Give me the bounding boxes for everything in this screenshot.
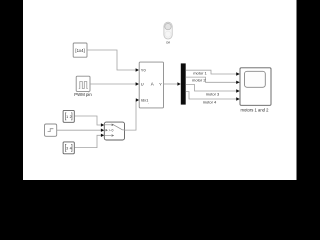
- constant C3 [3 4]: [63, 142, 74, 154]
- block PWM pin: [74, 76, 92, 97]
- white canvas: [23, 0, 297, 180]
- svg-text:1: 1: [66, 115, 68, 119]
- wire C2 to switch in1: [75, 116, 102, 125]
- svg-text:2: 2: [70, 115, 72, 119]
- wire U1.Y to demux: [164, 83, 179, 85]
- svg-text:motors 1 and 2: motors 1 and 2: [241, 107, 270, 112]
- switch block: [104, 122, 124, 140]
- svg-text:U: U: [141, 82, 144, 87]
- demux D1: [181, 63, 186, 104]
- constant C1 [1x4]: [73, 43, 87, 57]
- wire demux.3 to scope.3, label motor 3: [186, 85, 237, 92]
- svg-text:motor 2: motor 2: [192, 77, 206, 82]
- wire C1 to U1.Y0: [87, 50, 136, 70]
- svg-text:4: 4: [70, 147, 72, 151]
- wire demux.1 to scope.1, label motor 1: [186, 70, 237, 74]
- wire PWM pin to U1.U: [90, 83, 136, 85]
- wire demux.2 to scope.2, label motor 2: [186, 77, 237, 82]
- wire demux.4 to scope.4, label motor 4: [186, 92, 237, 99]
- constant C2 [1 2]: [63, 110, 74, 122]
- svg-text:Off: Off: [166, 40, 170, 44]
- svg-text:> 0: > 0: [109, 129, 114, 133]
- toggle switch (Off): [164, 22, 172, 44]
- svg-text:motor 1: motor 1: [193, 70, 207, 75]
- wire C3 to switch in3: [75, 135, 102, 147]
- svg-text:[1x4]: [1x4]: [75, 48, 84, 53]
- svg-text:3: 3: [66, 147, 68, 151]
- wire switch to U1.Idx1: [125, 100, 137, 130]
- wire step to switch in2: [57, 129, 102, 131]
- scope block: [240, 68, 271, 113]
- svg-text:motor 3: motor 3: [206, 92, 220, 97]
- svg-text:Y: Y: [159, 82, 162, 87]
- svg-text:motor 4: motor 4: [203, 99, 217, 104]
- svg-text:Y0: Y0: [141, 68, 147, 73]
- svg-text:A: A: [151, 82, 154, 87]
- assignment block U1: [139, 62, 163, 108]
- svg-text:,: ,: [148, 100, 149, 104]
- svg-text:PWM pin: PWM pin: [74, 92, 92, 97]
- step block: [45, 124, 57, 136]
